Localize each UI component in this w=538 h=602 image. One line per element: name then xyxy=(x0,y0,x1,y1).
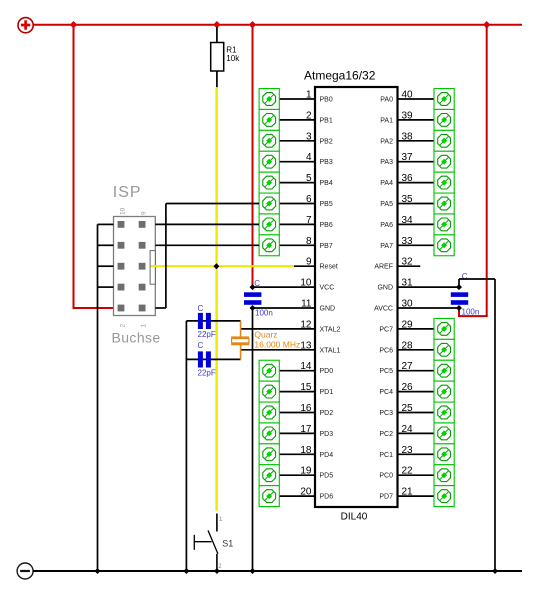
svg-text:Reset: Reset xyxy=(320,264,338,271)
capacitor C3 22pF xyxy=(198,304,216,339)
svg-text:PC2: PC2 xyxy=(379,431,393,438)
connector ISP Buchse body xyxy=(114,217,157,316)
terminal block X2 (PD0-PD6) xyxy=(259,360,279,506)
svg-text:22pF: 22pF xyxy=(198,330,216,339)
svg-text:16: 16 xyxy=(300,403,312,414)
svg-text:PC1: PC1 xyxy=(379,452,393,459)
terminal block X1 (PB0-PB7) xyxy=(259,89,279,256)
capacitor C5 100n xyxy=(451,272,479,317)
pin 35 stub xyxy=(398,203,435,205)
svg-text:Quarz: Quarz xyxy=(254,329,277,339)
wire XTAL1 node xyxy=(186,358,240,360)
junction VCC-rail D xyxy=(483,21,490,28)
pin 17 stub xyxy=(279,432,315,434)
junction GND pin11 xyxy=(250,305,256,311)
pin 6 stub xyxy=(279,203,315,205)
wire GND bottom rail xyxy=(33,570,522,572)
svg-text:PA6: PA6 xyxy=(380,222,393,229)
pin 5 stub xyxy=(279,182,315,184)
pin 15 stub xyxy=(279,391,315,393)
svg-text:19: 19 xyxy=(300,466,312,477)
pin 11 stub xyxy=(253,307,316,309)
wire XTAL2 node xyxy=(186,320,240,322)
pin 29 stub xyxy=(398,328,435,330)
svg-text:23: 23 xyxy=(402,445,414,456)
pin 18 stub xyxy=(279,453,315,455)
svg-text:XTAL1: XTAL1 xyxy=(320,347,341,354)
pin 24 stub xyxy=(398,432,435,434)
pin 23 stub xyxy=(398,453,435,455)
svg-text:PD6: PD6 xyxy=(320,494,334,501)
svg-text:PB4: PB4 xyxy=(320,180,333,187)
svg-text:PD7: PD7 xyxy=(379,494,393,501)
pin 14 stub xyxy=(279,370,315,372)
wire R1 bottom xyxy=(216,71,218,87)
wire right GND elbow to rail xyxy=(459,279,495,571)
capacitor C4 22pF xyxy=(198,341,216,378)
svg-text:7: 7 xyxy=(306,215,312,226)
svg-text:PA3: PA3 xyxy=(380,159,393,166)
svg-text:PC6: PC6 xyxy=(379,347,393,354)
svg-text:18: 18 xyxy=(300,445,312,456)
svg-text:31: 31 xyxy=(402,278,414,289)
wire VCC left drop xyxy=(73,25,114,308)
svg-text:2: 2 xyxy=(306,110,312,121)
svg-text:PB6: PB6 xyxy=(320,222,333,229)
wire ISP MISO to PB6 xyxy=(155,223,259,225)
svg-text:GND: GND xyxy=(320,306,336,313)
junction VCC-rail B xyxy=(213,21,220,28)
svg-text:PB7: PB7 xyxy=(320,243,333,250)
svg-text:15: 15 xyxy=(300,382,312,393)
svg-text:ISP: ISP xyxy=(113,184,142,201)
svg-text:PC4: PC4 xyxy=(379,389,393,396)
svg-text:PA5: PA5 xyxy=(380,201,393,208)
pin 32 stub xyxy=(398,265,421,267)
pin 1 stub xyxy=(279,98,315,100)
pin 12 stub xyxy=(241,328,315,330)
svg-text:26: 26 xyxy=(402,382,414,393)
svg-text:PB2: PB2 xyxy=(320,138,333,145)
resistor R1 xyxy=(211,43,240,72)
pin 4 stub xyxy=(279,161,315,163)
svg-text:Atmega16/32: Atmega16/32 xyxy=(304,69,376,83)
svg-text:38: 38 xyxy=(402,131,414,142)
svg-text:PC7: PC7 xyxy=(379,326,393,333)
svg-text:3: 3 xyxy=(306,131,312,142)
svg-text:AVCC: AVCC xyxy=(374,306,393,313)
pin 39 stub xyxy=(398,119,435,121)
pin 36 stub xyxy=(398,182,435,184)
pin 8 stub xyxy=(279,244,315,246)
svg-text:S1: S1 xyxy=(222,538,233,548)
svg-text:100n: 100n xyxy=(255,308,273,317)
svg-text:20: 20 xyxy=(300,487,312,498)
wire ISP MOSI to PB5 xyxy=(155,204,259,309)
svg-text:1: 1 xyxy=(306,90,312,101)
wire caps GND vertical xyxy=(185,321,187,571)
svg-text:14: 14 xyxy=(300,361,312,372)
svg-text:PC5: PC5 xyxy=(379,368,393,375)
svg-text:22pF: 22pF xyxy=(198,369,216,378)
junction VCC-rail C xyxy=(249,21,256,28)
svg-text:C: C xyxy=(198,304,204,313)
svg-text:13: 13 xyxy=(300,340,312,351)
svg-text:27: 27 xyxy=(402,361,414,372)
svg-text:PD5: PD5 xyxy=(320,473,334,480)
wire VCC top rail xyxy=(33,24,522,26)
svg-text:PD1: PD1 xyxy=(320,389,334,396)
svg-text:10: 10 xyxy=(300,278,312,289)
svg-text:36: 36 xyxy=(402,173,414,184)
svg-text:PB5: PB5 xyxy=(320,201,333,208)
svg-text:33: 33 xyxy=(402,236,414,247)
VCC power symbol + xyxy=(18,18,33,33)
svg-text:24: 24 xyxy=(402,424,414,435)
wire C2 to GND rail xyxy=(252,308,254,571)
capacitor C2 100n xyxy=(244,279,273,317)
pin 21 stub xyxy=(398,495,435,497)
svg-text:35: 35 xyxy=(402,194,414,205)
pin 33 stub xyxy=(398,244,435,246)
pin 30 stub xyxy=(398,307,460,309)
svg-text:PD2: PD2 xyxy=(320,410,334,417)
pin 13 stub xyxy=(241,349,315,351)
pin 34 stub xyxy=(398,223,435,225)
svg-text:37: 37 xyxy=(402,152,414,163)
svg-text:PA1: PA1 xyxy=(380,117,393,124)
wire VCC right drop to AVCC xyxy=(459,25,488,317)
wire R1 top xyxy=(216,27,218,43)
junction GND rail E xyxy=(492,568,498,574)
svg-text:C: C xyxy=(198,341,204,350)
svg-text:29: 29 xyxy=(402,319,414,330)
terminal block X4 (PC7-PC0,PD7) xyxy=(434,318,454,506)
terminal block X3 (PA0-PA7) xyxy=(434,89,454,256)
crystal Q1 Quarz 16.000 MHz xyxy=(231,321,300,360)
svg-text:PC0: PC0 xyxy=(379,473,393,480)
svg-text:5: 5 xyxy=(306,173,312,184)
svg-text:PD4: PD4 xyxy=(320,452,334,459)
svg-text:17: 17 xyxy=(300,424,312,435)
junction GND rail D xyxy=(250,568,256,574)
svg-text:16,000 MHz: 16,000 MHz xyxy=(254,340,300,350)
junction GND rail A xyxy=(95,568,101,574)
junction VCC pin10 xyxy=(250,284,256,290)
svg-text:30: 30 xyxy=(402,299,414,310)
pin 38 stub xyxy=(398,140,435,142)
svg-text:6: 6 xyxy=(306,194,312,205)
IC U1 Atmega16/32 body xyxy=(304,69,398,523)
ISP pin pads xyxy=(118,221,146,311)
pin 20 stub xyxy=(279,495,315,497)
svg-text:AREF: AREF xyxy=(374,264,393,271)
pin 9 stub + net Reset wire (yellow) xyxy=(151,265,315,267)
svg-text:10: 10 xyxy=(120,207,127,215)
svg-text:100n: 100n xyxy=(462,308,480,317)
svg-text:9: 9 xyxy=(141,211,148,215)
svg-text:2: 2 xyxy=(120,324,127,328)
svg-text:40: 40 xyxy=(402,90,414,101)
svg-text:PB1: PB1 xyxy=(320,117,333,124)
svg-text:8: 8 xyxy=(306,236,312,247)
svg-text:PB0: PB0 xyxy=(320,97,333,104)
pin 37 stub xyxy=(398,161,435,163)
svg-text:C: C xyxy=(254,279,260,288)
pin 7 stub xyxy=(279,223,315,225)
wire ISP GND stubs xyxy=(98,224,114,287)
svg-text:21: 21 xyxy=(402,487,414,498)
svg-text:PA2: PA2 xyxy=(380,138,393,145)
svg-text:1: 1 xyxy=(141,324,148,328)
svg-text:PA4: PA4 xyxy=(380,180,393,187)
svg-text:PB3: PB3 xyxy=(320,159,333,166)
svg-text:VCC: VCC xyxy=(320,285,335,292)
svg-text:34: 34 xyxy=(402,215,414,226)
svg-text:25: 25 xyxy=(402,403,414,414)
switch S1 xyxy=(194,514,233,572)
wire net RESET vertical (yellow) xyxy=(215,87,217,511)
pin 26 stub xyxy=(398,391,435,393)
GND power symbol - xyxy=(17,563,33,579)
svg-text:4: 4 xyxy=(306,152,312,163)
svg-text:PA0: PA0 xyxy=(380,97,393,104)
svg-text:28: 28 xyxy=(402,340,414,351)
svg-text:9: 9 xyxy=(306,257,312,268)
svg-text:12: 12 xyxy=(300,319,312,330)
pin 25 stub xyxy=(398,412,435,414)
svg-text:32: 32 xyxy=(402,257,414,268)
pin 28 stub xyxy=(398,349,435,351)
pin 10 stub xyxy=(253,286,316,288)
svg-text:22: 22 xyxy=(402,466,414,477)
svg-text:GND: GND xyxy=(377,285,393,292)
junction GND rail B xyxy=(183,568,189,574)
svg-text:39: 39 xyxy=(402,110,414,121)
pin 22 stub xyxy=(398,474,435,476)
svg-text:Buchse: Buchse xyxy=(112,330,161,346)
svg-text:10k: 10k xyxy=(226,54,240,63)
junction Reset net xyxy=(213,263,219,269)
junction AVCC pin30 xyxy=(456,305,462,311)
svg-text:PD0: PD0 xyxy=(320,368,334,375)
wire VCC to C1 xyxy=(252,25,254,287)
pin 19 stub xyxy=(279,474,315,476)
junction GND rail C xyxy=(214,568,220,574)
pin 31 stub xyxy=(398,286,460,288)
pin 40 stub xyxy=(398,98,435,100)
pin 3 stub xyxy=(279,140,315,142)
pin 16 stub xyxy=(279,412,315,414)
junction VCC-rail A xyxy=(70,21,77,28)
wire ISP GND vertical xyxy=(97,224,99,571)
svg-text:PC3: PC3 xyxy=(379,410,393,417)
svg-text:DIL40: DIL40 xyxy=(341,512,368,523)
svg-text:11: 11 xyxy=(301,299,312,310)
svg-text:PA7: PA7 xyxy=(380,243,393,250)
pin 2 stub xyxy=(279,119,315,121)
pin 27 stub xyxy=(398,370,435,372)
svg-text:PD3: PD3 xyxy=(320,431,334,438)
wire ISP SCK to PB7 xyxy=(155,244,259,246)
svg-text:XTAL2: XTAL2 xyxy=(320,326,341,333)
junction GND pin31 xyxy=(456,284,462,290)
